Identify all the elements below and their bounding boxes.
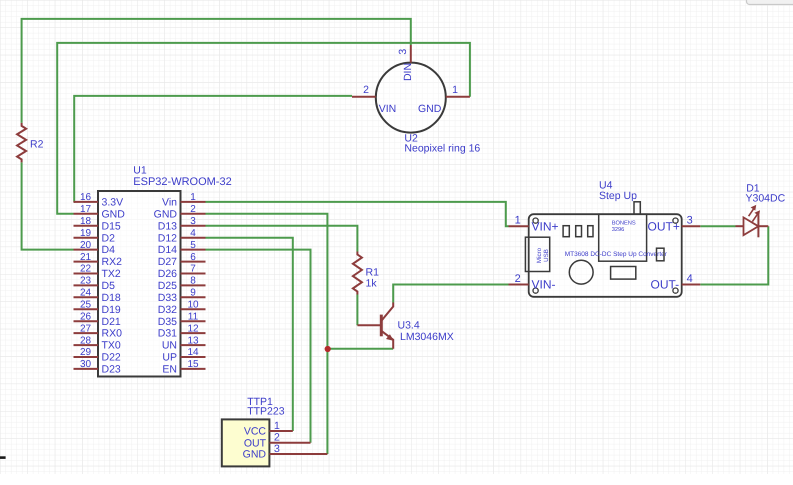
svg-text:24: 24 (80, 288, 92, 299)
label D1 Y304DC (746, 183, 786, 205)
svg-text:3: 3 (397, 49, 409, 55)
svg-text:18: 18 (80, 216, 92, 227)
U1 pin 19 D2 (left) (74, 228, 116, 244)
svg-text:25: 25 (80, 300, 92, 311)
svg-text:GND: GND (418, 103, 442, 115)
svg-text:5: 5 (190, 240, 196, 251)
svg-text:26: 26 (80, 311, 92, 322)
label U2 Neopixel ring 16 (404, 133, 480, 155)
transistor U3.4 LM3046MX (NPN) (357, 303, 394, 349)
U4 pin 2 VIN- (509, 273, 556, 292)
TTP1 pin 3 GND (243, 443, 328, 461)
svg-text:LM3046MX: LM3046MX (400, 331, 454, 343)
resistor R2 (17, 123, 26, 162)
svg-text:2: 2 (274, 432, 280, 444)
svg-text:D25: D25 (158, 280, 177, 292)
U1 pin 1 Vin (right) (162, 192, 206, 208)
U1 pin 3 D13 (right) (158, 216, 206, 232)
svg-text:D15: D15 (102, 220, 121, 232)
svg-text:Neopixel ring 16: Neopixel ring 16 (404, 143, 480, 155)
svg-text:OUT+: OUT+ (648, 219, 680, 233)
U1 pin 22 TX2 (left) (74, 264, 121, 280)
resistor R1 (353, 252, 362, 295)
U1 pin 14 UP (right) (162, 347, 205, 363)
U1 pin 6 D27 (right) (158, 252, 206, 268)
svg-text:Step Up: Step Up (599, 190, 637, 202)
U2 pin 1 GND stub (right) (418, 84, 470, 115)
svg-text:D4: D4 (102, 244, 116, 256)
svg-text:D18: D18 (102, 292, 121, 304)
svg-text:6: 6 (190, 252, 196, 263)
wire: U1 pin 4 D12 to TTP1 pin 1 VCC (206, 238, 293, 431)
U4 pin 4 OUT- (651, 273, 701, 292)
svg-text:10: 10 (187, 300, 199, 311)
U4 trimpot BONENS 3296 (599, 202, 647, 261)
wire: U1 pin 3 D13 to R1 top (206, 226, 358, 252)
label U1 reference designator (133, 165, 147, 177)
U1 pin 28 TX0 (left) (74, 335, 121, 351)
U4 pin 1 VIN+ (509, 215, 559, 234)
svg-text:RX2: RX2 (102, 256, 123, 268)
svg-text:U1: U1 (133, 165, 147, 177)
U4 step-up module body (529, 214, 682, 297)
op-amp U1 body: ESP32-WROOM-32 rectangle (98, 191, 181, 377)
wire: U1 pin 5 D14 to TTP1 pin 2 OUT (206, 250, 311, 443)
svg-text:D5: D5 (102, 280, 116, 292)
wire: junction to Q1 emitter (327, 348, 393, 350)
U1 pin 12 D31 (right) (158, 323, 206, 339)
svg-text:1: 1 (274, 420, 280, 432)
svg-text:D12: D12 (158, 232, 177, 244)
U4 micro-usb connector (525, 237, 549, 271)
U1 pin 2 GND (right) (154, 204, 206, 220)
svg-text:15: 15 (187, 359, 199, 370)
wire: U2 DIN stub top to R2 top (net D4) (22, 19, 411, 123)
svg-text:D13: D13 (158, 220, 177, 232)
svg-text:MicroUSB: MicroUSB (536, 247, 550, 263)
U1 pin 26 D21 (left) (74, 311, 121, 327)
label R1 value 1k (366, 267, 380, 290)
U2 pin 3 DIN stub (top) (397, 45, 414, 81)
U1 pin 27 RX0 (left) (74, 323, 123, 339)
svg-text:3: 3 (687, 215, 693, 227)
screen artifact: left edge tick (0, 456, 6, 459)
label U1 value ESP32-WROOM-32 (133, 176, 231, 188)
svg-text:27: 27 (80, 323, 92, 334)
svg-text:TX0: TX0 (102, 340, 121, 352)
svg-text:OUT-: OUT- (651, 278, 680, 292)
U1 pin 11 D35 (right) (158, 311, 206, 327)
svg-text:GND: GND (102, 208, 126, 220)
svg-text:1: 1 (452, 84, 458, 96)
U4 resistor chip (657, 248, 665, 261)
svg-text:D23: D23 (102, 364, 121, 376)
svg-text:R2: R2 (30, 139, 44, 151)
U1 pin 21 RX2 (left) (74, 252, 123, 268)
svg-text:RX0: RX0 (102, 328, 123, 340)
svg-text:14: 14 (187, 347, 199, 358)
label U3.4 LM3046MX (398, 320, 454, 344)
wire: U4 pin 3 OUT+ to D1 anode (700, 225, 735, 227)
U1 pin 17 GND (left) (74, 204, 126, 220)
U4 capacitor C3 (588, 226, 593, 237)
svg-text:D2: D2 (102, 232, 116, 244)
svg-text:11: 11 (188, 311, 199, 322)
diode D1 Y304DC (LED) (736, 205, 769, 237)
svg-text:D33: D33 (158, 292, 177, 304)
svg-text:UP: UP (162, 352, 177, 364)
U1 pin 5 D14 (right) (158, 240, 206, 256)
svg-text:EN: EN (162, 364, 177, 376)
U1 pin 8 D25 (right) (158, 276, 206, 292)
svg-text:3: 3 (190, 216, 196, 227)
U1 pin 29 D22 (left) (74, 347, 121, 363)
U4 inductor coil circle (569, 260, 593, 284)
wire: D1 cathode to U4 pin 4 OUT- (700, 226, 768, 284)
wire: R1 bottom to Q1 base lead (356, 295, 358, 326)
svg-text:D22: D22 (102, 352, 121, 364)
svg-text:VCC: VCC (244, 426, 267, 438)
U4 capacitor C2 (576, 226, 582, 237)
svg-text:UN: UN (162, 340, 177, 352)
TTP1 TTP223 touch sensor body (222, 419, 270, 466)
screen artifact: tooltip fragment top-right (747, 0, 793, 5)
wire: U1 pin 16 3.3V to U2 pin 2 VIN (74, 96, 353, 202)
svg-text:GND: GND (243, 449, 267, 461)
svg-text:1k: 1k (366, 278, 378, 290)
label U4 Step Up (599, 180, 637, 202)
svg-text:30: 30 (80, 359, 92, 370)
svg-text:3296: 3296 (612, 227, 625, 233)
U4 silk text MT3608 (565, 251, 668, 258)
svg-text:Y304DC: Y304DC (746, 193, 786, 205)
svg-text:VIN-: VIN- (532, 278, 556, 292)
svg-text:D26: D26 (158, 268, 177, 280)
U4 pin 3 OUT+ (648, 215, 701, 234)
svg-text:ESP32-WROOM-32: ESP32-WROOM-32 (133, 176, 231, 188)
svg-text:D19: D19 (102, 304, 121, 316)
U1 pin 13 UN (right) (162, 335, 206, 351)
svg-text:BONENS: BONENS (612, 221, 636, 227)
svg-text:3.3V: 3.3V (102, 197, 124, 209)
svg-text:4: 4 (687, 273, 693, 285)
svg-text:22: 22 (80, 264, 92, 275)
U1 pin 7 D26 (right) (158, 264, 206, 280)
svg-text:28: 28 (80, 335, 92, 346)
svg-text:D27: D27 (158, 256, 177, 268)
junction: GND net junction dot (325, 346, 331, 352)
svg-text:D32: D32 (158, 304, 177, 316)
U2 pin 2 VIN stub (left) (352, 84, 396, 115)
U4 mounting holes (533, 218, 678, 293)
svg-text:Vin: Vin (162, 197, 177, 209)
U1 pin 25 D19 (left) (74, 300, 121, 316)
svg-text:19: 19 (80, 228, 92, 239)
wire: R2 bottom to U1 pin 20 D4 (22, 162, 74, 249)
svg-text:2: 2 (515, 273, 521, 285)
svg-text:2: 2 (363, 84, 369, 96)
svg-text:OUT: OUT (244, 437, 267, 449)
TTP1 pin 1 VCC (244, 420, 293, 438)
U4 capacitor C1 (563, 226, 569, 237)
svg-text:9: 9 (190, 288, 196, 299)
svg-text:U3.4: U3.4 (398, 320, 420, 332)
wire: Q1 collector to U4 pin 2 VIN- (393, 285, 508, 303)
svg-text:1: 1 (515, 215, 521, 227)
svg-text:D21: D21 (102, 316, 121, 328)
svg-text:23: 23 (80, 276, 92, 287)
U1 pin 15 EN (right) (162, 359, 205, 375)
svg-text:7: 7 (190, 264, 196, 275)
label R2 (30, 139, 44, 151)
svg-text:21: 21 (80, 252, 92, 263)
svg-text:D31: D31 (158, 328, 177, 340)
svg-text:TX2: TX2 (102, 268, 121, 280)
U1 pin 20 D4 (left) (74, 240, 116, 256)
svg-text:VIN+: VIN+ (532, 219, 559, 233)
U1 pin 30 D23 (left) (74, 359, 121, 375)
svg-text:D35: D35 (158, 316, 177, 328)
U1 pin 24 D18 (left) (74, 288, 121, 304)
svg-text:4: 4 (190, 228, 196, 239)
svg-text:2: 2 (190, 204, 196, 215)
svg-text:3: 3 (274, 443, 280, 455)
svg-text:13: 13 (187, 335, 199, 346)
svg-text:1: 1 (190, 192, 196, 203)
wire: U1 pin 1 Vin to U4 pin 1 VIN+ (206, 202, 509, 226)
svg-text:16: 16 (80, 192, 92, 203)
svg-text:VIN: VIN (379, 103, 397, 115)
U1 pin 16 3.3V (left) (74, 192, 124, 208)
U4 diode SS34 (611, 267, 636, 280)
U2 Neopixel ring 16 circle body (376, 63, 446, 133)
svg-text:TTP223: TTP223 (247, 406, 285, 418)
svg-text:D14: D14 (158, 244, 177, 256)
svg-text:12: 12 (187, 323, 199, 334)
wire: U1 pin 17 GND to U2 pin 1 GND (57, 43, 470, 214)
svg-text:17: 17 (80, 204, 92, 215)
svg-text:8: 8 (190, 276, 196, 287)
TTP1 pin 2 OUT (244, 432, 311, 450)
svg-text:MT3608 DC-DC Step Up Converter: MT3608 DC-DC Step Up Converter (565, 251, 668, 258)
svg-text:29: 29 (80, 347, 92, 358)
U1 pin 4 D12 (right) (158, 228, 206, 244)
U1 pin 23 D5 (left) (74, 276, 116, 292)
svg-text:DIN: DIN (402, 63, 414, 81)
U1 pin 18 D15 (left) (74, 216, 121, 232)
svg-text:GND: GND (154, 208, 178, 220)
label TTP1 TTP223 (247, 396, 285, 418)
U1 pin 9 D33 (right) (158, 288, 206, 304)
svg-text:20: 20 (80, 240, 92, 251)
U1 pin 10 D32 (right) (158, 300, 206, 316)
wire: U1 pin 2 GND down through junction to TTP1 pin 3 GND (206, 214, 328, 454)
